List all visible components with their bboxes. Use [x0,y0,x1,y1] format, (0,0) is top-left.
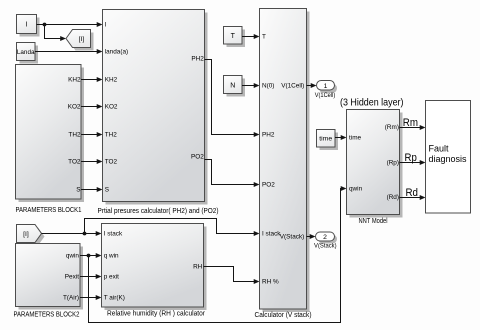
svg-text:q win: q win [104,253,119,260]
svg-text:RH %: RH % [262,279,279,286]
wire V(1Cell) -> outport 1 [307,83,317,88]
wire TH2 BLOCK1 -> U1 [81,132,103,137]
svg-text:[I]: [I] [79,36,85,43]
wire PH2 U1 -> calculator [205,60,260,138]
goto tag [I] [66,30,94,51]
port label T (U3 in) [262,34,266,41]
wire S BLOCK1 -> U1 [81,187,103,192]
wire PO2 U1 -> calculator [205,160,260,188]
port label p exit (U2 in) [104,274,119,281]
annotation (3 Hidden layer) [340,98,404,109]
svg-text:Landa: Landa [17,49,35,56]
svg-text:KH2: KH2 [105,77,118,84]
wire Rm -> fault diagnosis [400,125,426,130]
wire branch I stack -> calculator [85,219,260,237]
wire from-tag -> RH calc I stack [42,231,102,236]
svg-text:1: 1 [324,83,328,90]
port label (Rm) (U4 out) [385,124,399,131]
port label PO2 (U3 in) [262,182,275,189]
block T (constant) [224,27,246,48]
svg-text:[I]: [I] [23,231,29,238]
port label qwin (U4 in) [349,186,363,193]
svg-text:KO2: KO2 [68,104,81,111]
port label T(Air) (BLOCK2 out) [63,295,79,302]
svg-text:Rp: Rp [405,152,417,164]
port label RH % (U3 in) [262,279,279,286]
svg-text:I stack: I stack [262,231,281,238]
block time (clock source) [317,130,339,151]
svg-text:N: N [230,82,235,89]
svg-text:TH2: TH2 [68,132,81,139]
port label landa(a) (U1 in) [105,49,128,56]
block Landa (constant) [17,43,39,64]
block U1 partial pressures calculator [103,10,208,205]
port label (Rd) (U4 out) [387,194,399,201]
svg-text:Fault: Fault [429,144,450,154]
label NNT Model [359,218,388,225]
port label PH2 (U1 out) [191,56,204,63]
svg-text:TO2: TO2 [68,159,81,166]
svg-text:V(1Cell): V(1Cell) [281,83,304,90]
svg-text:I stack: I stack [104,231,123,238]
port label TO2 (BLOCK1 out) [68,159,81,166]
port label T air(K) (U2 in) [104,295,125,302]
svg-text:I: I [26,22,28,29]
wire V(Stack) -> outport 2 [307,234,316,239]
junction on I stack wire [83,232,87,236]
block PARAMETERS BLOCK1 [16,65,85,203]
wire I -> partial pressures calc [37,22,103,27]
port label qwin (BLOCK2 out) [66,253,80,260]
svg-text:time: time [319,135,332,142]
label V(Stack) [314,243,337,249]
annotation Rm [403,117,418,129]
svg-text:(3 Hidden layer): (3 Hidden layer) [340,98,404,109]
wire time -> NNT model [335,135,347,140]
svg-text:PARAMETERS BLOCK2: PARAMETERS BLOCK2 [14,312,80,319]
label Relative humidity calculator [107,311,206,318]
svg-text:qwin: qwin [349,186,363,193]
wire Pexit [80,274,102,279]
port label (Rp) (U4 out) [387,160,399,167]
junction on qwin wire [87,254,91,258]
svg-text:PH2: PH2 [191,56,204,63]
svg-text:KO2: KO2 [105,104,118,111]
wire KO2 BLOCK1 -> U1 [81,104,103,109]
block U4 NNT Model [347,110,403,218]
junction on I wire [43,23,47,27]
port label TH2 (U1 in) [105,132,118,139]
port label TO2 (U1 in) [105,159,118,166]
port label PH2 (U3 in) [262,132,275,139]
port label S (U1 in) [105,187,109,194]
label PARAMETERS BLOCK1 [16,207,82,214]
port label V(Stack) (U3 out) [280,234,305,241]
svg-text:I: I [105,22,107,29]
from tag [I] [17,225,45,246]
wire Landa -> partial pressures calc [35,49,103,54]
wire TO2 BLOCK1 -> U1 [81,159,103,164]
svg-text:Calculator (V stack): Calculator (V stack) [255,312,312,319]
svg-text:(Rm): (Rm) [385,124,399,131]
wire qwin BLOCK2 -> RH calc [80,253,102,258]
svg-text:TO2: TO2 [105,159,118,166]
svg-text:landa(a): landa(a) [105,49,128,56]
block U2 relative humidity calculator [102,224,207,311]
svg-text:RH: RH [193,264,203,271]
port label RH (U2 out) [193,264,203,271]
svg-text:qwin: qwin [66,253,80,260]
wire N -> calculator [242,83,260,88]
port label time (U4 in) [349,135,362,142]
svg-text:TH2: TH2 [105,132,118,139]
svg-text:PARAMETERS BLOCK1: PARAMETERS BLOCK1 [16,207,82,214]
svg-text:S: S [105,187,109,194]
block U3 calculator (V stack) [260,9,310,313]
port label KH2 (BLOCK1 out) [68,77,81,84]
svg-text:PH2: PH2 [262,132,275,139]
port label PO2 (U1 out) [191,154,204,161]
svg-text:2: 2 [323,234,327,241]
port label I (U1 in) [105,22,107,29]
port label q win (U2 in) [104,253,119,260]
port label N(0) (U3 in) [262,83,274,90]
svg-text:S: S [76,187,80,194]
svg-text:T(Air): T(Air) [63,295,79,302]
block N (constant) [224,76,246,97]
port label KO2 (BLOCK1 out) [68,104,81,111]
port label S (BLOCK1 out) [76,187,80,194]
svg-text:Prtial presures calculator( PH: Prtial presures calculator( PH2) and (PO… [98,208,219,215]
annotation Rd [406,187,419,199]
wire KH2 BLOCK1 -> U1 [81,77,103,82]
port label TH2 (BLOCK1 out) [68,132,81,139]
svg-text:V(1Cell): V(1Cell) [315,93,336,99]
wire branch I -> goto tag [45,25,67,42]
svg-text:T: T [262,34,266,41]
svg-text:Relative humidity (RH ) calcul: Relative humidity (RH ) calculator [107,311,206,318]
svg-text:time: time [349,135,362,142]
port label KH2 (U1 in) [105,77,118,84]
port label KO2 (U1 in) [105,104,118,111]
svg-text:T air(K): T air(K) [104,295,125,302]
block fault diagnosis [426,101,471,214]
label Prtial presures calculator [98,208,219,215]
wire Rp -> fault diagnosis [400,160,426,165]
wire Rd -> fault diagnosis [400,195,426,200]
svg-text:(Rp): (Rp) [387,160,399,167]
svg-text:NNT Model: NNT Model [359,218,388,225]
svg-text:(Rd): (Rd) [387,194,399,201]
block PARAMETERS BLOCK2 [16,244,84,310]
label V(1Cell) [315,93,336,99]
label PARAMETERS BLOCK2 [14,312,80,319]
svg-text:T: T [231,33,236,40]
svg-text:N(0): N(0) [262,83,274,90]
wire RH U2 -> calculator RH% [204,267,260,285]
svg-text:V(Stack): V(Stack) [314,243,337,249]
label Calculator (V stack) [255,312,312,319]
wire T -> calculator [242,34,260,39]
wire branch qwin -> NNT model [89,186,347,323]
port label I stack (U3 in) [262,231,281,238]
outport 2 [316,232,338,244]
svg-text:Rd: Rd [406,187,419,199]
wire T(Air) [80,295,102,300]
port label V(1Cell) (U3 out) [281,83,304,90]
annotation Rp [405,152,417,164]
svg-text:Pexit: Pexit [65,274,79,281]
port label I stack (U2 in) [104,231,123,238]
svg-text:PO2: PO2 [191,154,204,161]
svg-text:V(Stack): V(Stack) [280,234,305,241]
svg-text:KH2: KH2 [68,77,81,84]
port label Pexit (BLOCK2 out) [65,274,79,281]
svg-text:PO2: PO2 [262,182,275,189]
svg-text:Rm: Rm [403,117,418,129]
svg-text:p exit: p exit [104,274,119,281]
outport 1 [317,81,338,94]
svg-text:diagnosis: diagnosis [429,154,468,164]
block I1 (constant "I") [17,15,40,37]
